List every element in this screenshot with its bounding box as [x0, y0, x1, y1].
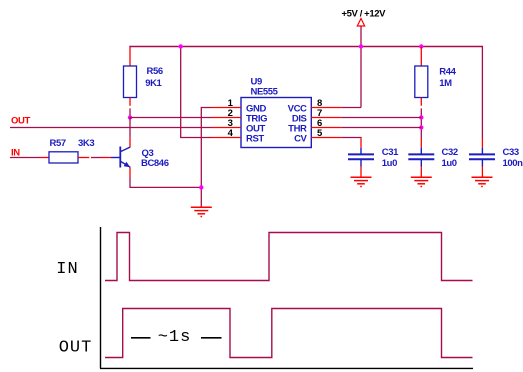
pin 3 OUT stub	[212, 127, 242, 129]
pin stub R44 bottom	[420, 98, 422, 106]
pin stub C32 top	[420, 138, 422, 148]
junction DIS/R44 node	[419, 115, 423, 119]
wire Q3 emitter to ground node	[130, 178, 201, 188]
label C31 1u0	[382, 147, 399, 169]
pin stub R57 right	[78, 157, 89, 159]
wire pin8 to power stem	[341, 107, 361, 109]
svg-text:OUT: OUT	[59, 338, 93, 357]
svg-text:1u0: 1u0	[442, 158, 457, 169]
svg-text:CV: CV	[294, 134, 307, 145]
wire RST stem from bus	[181, 47, 212, 138]
wire power stem to pin8 row	[360, 26, 362, 108]
junction emitter/GND node	[199, 185, 203, 189]
transistor Q3	[111, 147, 130, 168]
svg-text:+5V / +12V: +5V / +12V	[342, 9, 387, 20]
junction bus/R44 stem	[419, 44, 423, 48]
capacitor C31	[348, 148, 374, 167]
dash left of ~1s	[131, 337, 151, 339]
waveform OUT trace	[105, 309, 473, 358]
svg-text:1u0: 1u0	[382, 158, 397, 169]
label U9 NE555	[251, 77, 279, 98]
capacitor C32	[408, 148, 434, 167]
svg-text:OUT: OUT	[11, 115, 30, 126]
power symbol +5V/+12V	[342, 9, 387, 27]
pin 2 TRIG stub	[212, 117, 242, 119]
junction node TRIG/R56/Q3 collector	[128, 115, 132, 119]
pin stub Q3 emitter	[129, 168, 131, 178]
svg-text:IN: IN	[56, 260, 78, 279]
junction THR/R44 node	[419, 125, 423, 129]
pin stub C33 top	[481, 138, 483, 148]
op-amp U9 NE555 body	[241, 98, 311, 148]
svg-text:C32: C32	[442, 147, 458, 158]
junction bus/RST stem	[179, 44, 183, 48]
svg-text:R56: R56	[147, 66, 163, 77]
resistor R56	[124, 66, 137, 98]
dash right of ~1s	[201, 337, 222, 339]
wire pin2 TRIG to junction	[130, 117, 212, 119]
wire VCC bus top	[130, 46, 483, 48]
svg-text:100n: 100n	[503, 158, 523, 169]
svg-text:R57: R57	[50, 138, 66, 149]
ground below C31	[351, 177, 372, 186]
pin 7 DIS stub	[311, 117, 341, 119]
wire R57 to Q3 base	[91, 157, 101, 159]
ground below C33	[472, 177, 493, 186]
wire pin5 CV to C31	[341, 137, 361, 140]
wire pin6 THR to R44 node	[341, 127, 421, 129]
wire pin7 DIS to R44 node	[341, 117, 421, 119]
svg-text:BC846: BC846	[141, 158, 169, 169]
wire IN net to R57	[10, 157, 40, 159]
pin stub R56 bottom	[129, 98, 131, 106]
svg-text:9K1: 9K1	[145, 78, 162, 89]
pin 6 THR stub	[311, 127, 341, 129]
svg-text:~1s: ~1s	[158, 328, 192, 347]
svg-text:R44: R44	[439, 67, 456, 78]
svg-text:C31: C31	[382, 147, 399, 158]
wire R44 bottom to C32	[420, 108, 422, 138]
ground below C32	[411, 177, 432, 186]
wire bus corner down to C33	[481, 46, 483, 138]
resistor R57	[49, 152, 78, 163]
svg-text:1M: 1M	[439, 78, 452, 89]
pin 1 GND stub	[212, 107, 242, 109]
label R44 1M	[439, 67, 456, 90]
pin stub C32 bottom	[420, 167, 422, 178]
svg-text:C33: C33	[503, 147, 519, 158]
waveform IN trace	[105, 233, 473, 281]
pin stub C33 bottom	[481, 167, 483, 178]
pin stub C31 top	[360, 138, 362, 147]
svg-text:NE555: NE555	[251, 87, 279, 98]
pin stub R57 left	[40, 157, 49, 159]
label R56 9K1	[145, 66, 163, 89]
label Q3 BC846	[141, 148, 169, 169]
wire R56 bottom to TRIG junction	[129, 108, 131, 117]
timing diagram vertical axis	[100, 227, 102, 368]
ground below pin1/emitter	[191, 207, 212, 216]
pin stub Q3 base	[101, 157, 111, 159]
resistor R44	[415, 66, 428, 98]
pin 8 VCC stub	[311, 107, 341, 109]
pin stub Q3 collector	[129, 137, 131, 147]
pin 5 CV stub	[311, 137, 341, 139]
wire TRIG junction down	[129, 118, 131, 138]
label C33 100n	[503, 147, 523, 169]
capacitor C33	[469, 148, 495, 167]
svg-text:RST: RST	[246, 134, 264, 145]
wire bus corner down to R56	[129, 46, 131, 48]
wire OUT net	[10, 127, 212, 129]
pin stub R44 top	[420, 47, 422, 66]
label C32 1u0	[442, 147, 458, 169]
label R57 3K3	[50, 138, 95, 149]
svg-text:3K3: 3K3	[78, 138, 94, 149]
wire pin1 GND down to ground	[201, 108, 211, 207]
pin stub C31 bottom	[360, 167, 362, 178]
pin 4 RST stub	[212, 137, 242, 139]
timing diagram horizontal axis	[100, 367, 473, 369]
pin stub R56 top	[129, 48, 131, 66]
junction bus/power stem	[359, 44, 363, 48]
